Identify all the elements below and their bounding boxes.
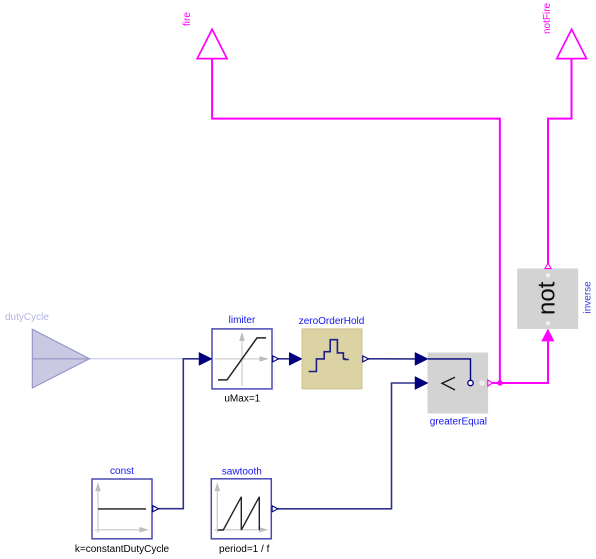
svg-text:const: const: [110, 466, 134, 477]
port not.y (BooleanOutput): [545, 263, 551, 268]
sawtooth icon wave: [218, 497, 259, 530]
port const.y (RealOutput): [153, 506, 159, 512]
port greaterEqual.y (BooleanOutput): [488, 380, 493, 386]
greaterEqual output ellipse dot: [479, 380, 485, 386]
connector fire (outer BooleanOutput): [197, 29, 227, 58]
block limiter: [199, 329, 279, 389]
junction node at greaterEqual output: [497, 380, 502, 385]
svg-text:dutyCycle: dutyCycle: [5, 312, 49, 323]
port greaterEqual.u1 (RealInput bottom): [415, 377, 428, 390]
const icon value line: [98, 508, 146, 510]
wire sawtooth to greaterEqual u1: [278, 383, 416, 509]
svg-text:fire: fire: [182, 12, 193, 26]
const icon y-axis: [97, 491, 99, 533]
svg-text:inverse: inverse: [583, 281, 594, 314]
port limiter.u (RealInput): [199, 352, 212, 365]
block not: [518, 263, 578, 341]
wire zeroOrderHold to greaterEqual u2: [368, 358, 416, 360]
svg-text:greaterEqual: greaterEqual: [430, 417, 487, 428]
wire greaterEqual output to fire (magenta, up and left): [212, 59, 500, 383]
limiter icon x-axis: [215, 358, 260, 360]
not input ellipse dot: [546, 321, 550, 325]
port greaterEqual.u2 (RealInput top): [415, 352, 428, 365]
port sawtooth.y (RealOutput): [272, 506, 278, 512]
wire limiter to zeroOrderHold: [277, 358, 290, 360]
wire const to limiter input: [159, 359, 199, 509]
svg-text:zeroOrderHold: zeroOrderHold: [299, 316, 365, 327]
svg-text:not: not: [533, 281, 560, 315]
port not.u (BooleanInput): [542, 329, 554, 341]
sawtooth icon y-axis: [216, 491, 218, 533]
block const: [92, 479, 159, 539]
wire greaterEqual output to not input: [493, 342, 549, 384]
const icon x-axis: [95, 529, 141, 531]
svg-text:notFire: notFire: [542, 2, 553, 34]
greaterEqual less-than glyph: [442, 377, 455, 390]
svg-text:k=constantDutyCycle: k=constantDutyCycle: [75, 544, 170, 555]
svg-text:uMax=1: uMax=1: [224, 394, 260, 405]
svg-text:period=1 / f: period=1 / f: [219, 544, 270, 555]
connector notFire (outer BooleanOutput): [557, 29, 587, 58]
wire dutyCycle to limiter (faded, conditional): [90, 358, 184, 360]
not output ellipse dot: [546, 273, 550, 277]
block greaterEqual: [415, 352, 493, 413]
greaterEqual output circle: [468, 380, 473, 385]
limiter icon curve: [218, 338, 266, 380]
block zeroOrderHold: [289, 329, 368, 389]
block sawtooth: [211, 479, 277, 539]
limiter icon y-axis: [241, 341, 243, 386]
port limiter.y (RealOutput): [273, 356, 279, 362]
sawtooth icon x-axis: [214, 529, 259, 531]
zeroOrderHold staircase icon: [309, 340, 349, 372]
port zeroOrderHold.u (RealInput): [289, 352, 302, 365]
svg-text:sawtooth: sawtooth: [222, 467, 262, 478]
port zeroOrderHold.y (RealOutput): [363, 356, 369, 362]
svg-text:limiter: limiter: [229, 315, 256, 326]
wire not output to notFire: [548, 59, 572, 264]
greaterEqual internal line from u2 to circle: [428, 359, 471, 380]
connector dutyCycle (outer RealInput, faded): [32, 329, 89, 388]
